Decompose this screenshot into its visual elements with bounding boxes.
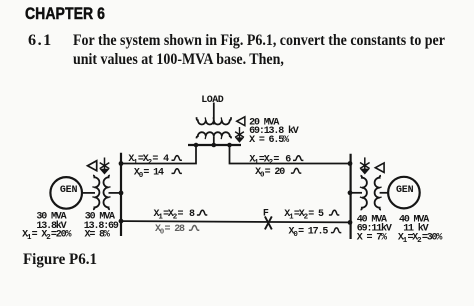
svg-text:X1=X2= 5: X1=X2= 5 [284,209,324,222]
svg-text:X= 8%: X= 8% [85,230,110,241]
svg-text:X1=X2= 4: X1=X2= 4 [128,154,169,167]
svg-text:X0= 20: X0= 20 [255,167,285,180]
svg-text:X0= 17.5: X0= 17.5 [289,227,329,240]
svg-text:GEN: GEN [60,185,78,196]
svg-text:X = 6.5%: X = 6.5% [249,135,289,146]
svg-text:F: F [263,209,269,220]
svg-text:X0= 14: X0= 14 [134,167,164,180]
svg-text:X0= 28: X0= 28 [155,224,185,237]
svg-text:X1=X2= 6: X1=X2= 6 [249,154,291,167]
svg-text:X = 7%: X = 7% [357,233,387,244]
svg-text:GEN: GEN [396,185,414,196]
svg-text:X1=X2= 8: X1=X2= 8 [154,209,195,222]
svg-text:LOAD: LOAD [201,95,224,106]
